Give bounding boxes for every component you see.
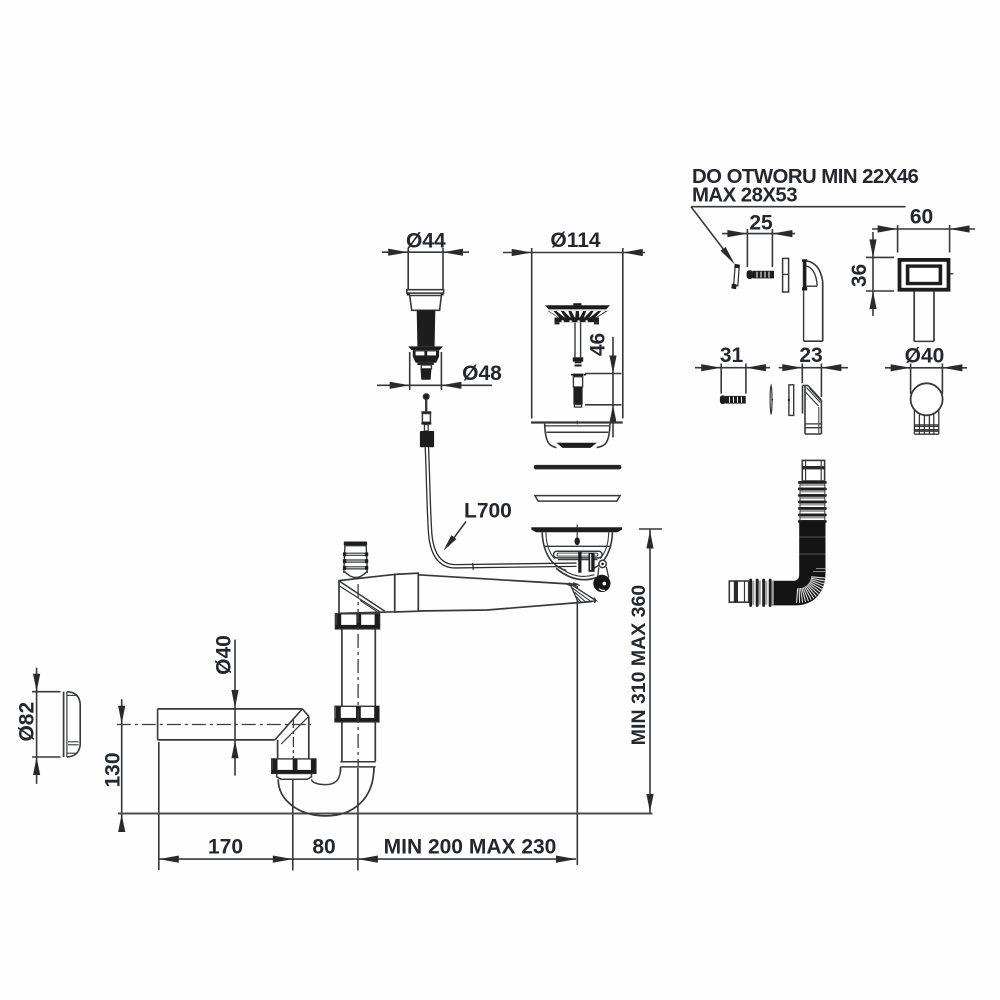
trap vertical pipe <box>340 629 375 772</box>
dimension D25 <box>722 229 795 267</box>
overflow cover 60x36 <box>898 258 954 292</box>
horizontal outlet pipe <box>117 584 358 766</box>
rubber gasket disc <box>534 465 622 470</box>
svg-text:Ø114: Ø114 <box>550 229 601 252</box>
svg-text:MIN 310 MAX 360: MIN 310 MAX 360 <box>628 585 650 746</box>
dimension D46 <box>585 337 622 438</box>
flexible hose top connector <box>802 460 824 481</box>
bottom reference line <box>118 813 653 815</box>
leader DO-OTWORU <box>691 207 906 265</box>
svg-text:Ø44: Ø44 <box>406 230 446 253</box>
screw 25 <box>747 270 774 279</box>
svg-text:31: 31 <box>720 344 744 367</box>
nut on tee bottom <box>335 614 379 629</box>
washer edge-on <box>770 386 773 415</box>
main horizontal pipe <box>395 573 592 612</box>
svg-text:25: 25 <box>749 212 773 235</box>
dimension D60 <box>872 225 975 253</box>
svg-text:170: 170 <box>208 836 243 859</box>
dimension D40-left <box>231 640 238 776</box>
svg-text:46: 46 <box>587 333 610 356</box>
drain body flange plate <box>531 525 622 533</box>
svg-text:MAX 28X53: MAX 28X53 <box>692 185 797 207</box>
wall cap D82 <box>64 692 81 757</box>
pop-up mechanism <box>554 551 611 592</box>
trap left collar <box>277 773 312 779</box>
svg-text:36: 36 <box>848 264 871 287</box>
lower plug piece (46) <box>571 374 586 408</box>
dimension D82 <box>32 668 61 784</box>
clamp plate 23 <box>788 385 794 416</box>
svg-text:Ø40: Ø40 <box>213 635 236 675</box>
svg-text:Ø48: Ø48 <box>462 362 502 385</box>
overflow pipe <box>914 292 934 342</box>
dimension MIN310-MAX360 <box>639 529 662 814</box>
outlet funnel cone <box>570 584 596 603</box>
strainer basket <box>545 303 610 366</box>
dimension D44 <box>382 248 469 290</box>
svg-text:80: 80 <box>312 836 335 859</box>
dimension D114 <box>503 248 645 419</box>
svg-text:60: 60 <box>910 206 933 229</box>
ball joint <box>911 383 943 434</box>
screw 31 <box>720 395 746 404</box>
flexible hose black body and bend <box>772 522 826 606</box>
tee body <box>339 574 395 613</box>
dimension D48 <box>377 352 492 390</box>
flexible hose upper ribs <box>798 481 827 523</box>
friction washer disc <box>535 496 620 502</box>
svg-text:130: 130 <box>102 752 125 787</box>
dimension D31 <box>695 364 770 394</box>
sink flange bowl (under D114) <box>531 421 623 448</box>
wall elbow above left nut <box>275 709 309 759</box>
clamp plate 25 <box>783 258 789 292</box>
svg-text:Ø82: Ø82 <box>16 702 39 742</box>
angled overflow adapter 23 <box>803 386 822 435</box>
dimension D23 <box>779 364 848 398</box>
corrugated inlet on tee <box>343 542 368 578</box>
nut mid trap <box>335 706 379 722</box>
dimension D40-right <box>885 364 967 395</box>
flexible hose left ribs <box>749 579 774 607</box>
svg-text:23: 23 <box>799 344 822 367</box>
U-bend <box>278 767 374 816</box>
dimension D36 <box>866 232 894 316</box>
plug assembly D44 <box>407 290 444 380</box>
leader L700 <box>444 522 467 551</box>
dimension D130 <box>118 699 125 832</box>
svg-text:Ø40: Ø40 <box>905 345 945 368</box>
flexible hose left connector <box>729 581 748 602</box>
svg-text:L700: L700 <box>464 500 512 523</box>
dimension bottom-chain 170/80/MIN200 <box>159 586 578 870</box>
overflow elbow <box>802 259 823 341</box>
drain bowl <box>542 532 612 570</box>
pull rod and cable <box>420 394 577 570</box>
nut trap left <box>272 759 316 774</box>
svg-text:MIN 200 MAX 230: MIN 200 MAX 230 <box>384 836 557 859</box>
clamp plate small (leader target) <box>731 264 739 289</box>
